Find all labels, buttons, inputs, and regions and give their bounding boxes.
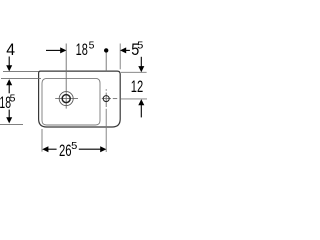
dim 5.5: dimension line tail [126, 49, 130, 51]
dim 26.5: right-pointing arrowhead [100, 146, 106, 152]
dim 12: stem below up arrow [140, 105, 142, 118]
dim 26.5: left extension line [41, 129, 43, 152]
dim 18.5 left: up arrowhead [6, 79, 12, 85]
dim 18.5 left: stem above down arrow [8, 110, 10, 118]
dim 18.5 left: down arrowhead [6, 117, 12, 123]
tap hole crosshair dash right [113, 98, 117, 100]
svg-text:18: 18 [76, 41, 88, 59]
dim 18.5 top: dimension line tail [46, 49, 61, 51]
dim 12: up arrowhead [138, 99, 144, 105]
dim 26.5: left-pointing arrowhead [42, 146, 48, 152]
drain hole inner circle [62, 95, 70, 103]
svg-text:5: 5 [137, 40, 143, 51]
tap hole centerline dash above hole [105, 89, 107, 91]
right edge extension line (top) [119, 44, 121, 70]
dim 26.5: dimension line right segment [79, 148, 101, 150]
dim 18.5 left: bottom short extension line [0, 123, 23, 125]
dim 12: down arrowhead [138, 66, 144, 72]
drain centerline (vertical) [65, 44, 67, 109]
dim 4: top extension line [3, 70, 39, 72]
svg-text:12: 12 [131, 78, 143, 96]
dim 4: stem above arrow [8, 57, 10, 66]
svg-text:4: 4 [6, 41, 15, 59]
svg-text:5: 5 [71, 141, 77, 152]
tap hole circle [103, 96, 109, 102]
tap hole centerline upper segment [105, 53, 107, 72]
washbasin inner bowl [42, 78, 100, 125]
tap hole centerline dot (top) [104, 48, 108, 52]
dim 4: bottom extension line [1, 77, 41, 79]
svg-text:26: 26 [59, 142, 72, 160]
washbasin outer outline [39, 71, 121, 127]
dim 4: down arrowhead [6, 65, 12, 71]
tap hole crosshair horizontal [102, 98, 111, 100]
dim 18.5 left: stem below up arrow [8, 85, 10, 94]
tap hole crosshair vertical [105, 93, 107, 107]
dim 12: stem above down arrow [140, 57, 142, 67]
dim 26.5: dimension line left segment [48, 148, 57, 150]
svg-text:5: 5 [10, 93, 16, 104]
dim 12: bottom extension line [121, 98, 147, 100]
dim 12: top extension line [121, 71, 147, 73]
drain hole outer circle [59, 92, 73, 106]
svg-text:5: 5 [89, 41, 95, 52]
dim 5.5: left-pointing arrowhead [120, 47, 126, 53]
dim 18.5 top: right-pointing arrowhead [60, 47, 66, 53]
drain hole crosshair horizontal [55, 98, 78, 100]
tap hole extension line down to bottom dimension [105, 109, 107, 152]
